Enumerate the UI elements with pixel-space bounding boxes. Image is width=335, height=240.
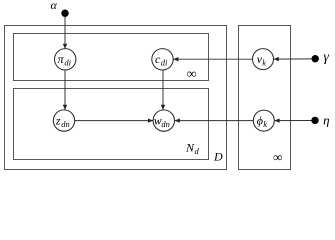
label infinity (top plate index): [187, 66, 197, 81]
svg-text:z: z: [55, 113, 61, 127]
wire v_k to c_di: [173, 57, 252, 61]
svg-text:N: N: [185, 141, 195, 155]
svg-text:ϕ: ϕ: [257, 114, 263, 128]
node gamma (observed hyperparameter dot): [312, 55, 319, 62]
node alpha (observed hyperparameter dot): [61, 10, 68, 17]
wire c_di to w_dn: [161, 70, 165, 110]
label infinity (right plate index): [273, 150, 282, 165]
node pi_di: [54, 49, 75, 70]
svg-text:D: D: [213, 150, 223, 164]
svg-text:di: di: [64, 58, 71, 68]
svg-text:k: k: [262, 58, 266, 68]
svg-text:dn: dn: [161, 119, 170, 129]
label gamma: [323, 50, 329, 65]
node c_di: [152, 49, 173, 70]
wire eta to phi_k: [274, 118, 311, 122]
wire gamma to v_k: [274, 57, 312, 61]
wire pi_di to z_dn: [63, 70, 67, 110]
svg-text:∞: ∞: [187, 66, 197, 81]
node w_dn: [153, 110, 174, 131]
plate D (outer document plate): [5, 26, 227, 170]
node phi_k: [253, 110, 274, 131]
node eta (observed hyperparameter dot): [311, 117, 318, 124]
svg-text:d: d: [195, 146, 200, 156]
svg-text:k: k: [263, 119, 267, 129]
wire z_dn to w_dn: [75, 118, 154, 122]
svg-text:∞: ∞: [273, 150, 282, 165]
node v_k: [253, 49, 274, 70]
svg-text:dn: dn: [61, 119, 69, 129]
wire alpha to pi_di: [63, 16, 67, 50]
svg-text:di: di: [161, 58, 168, 68]
svg-text:α: α: [50, 0, 57, 12]
svg-text:γ: γ: [323, 50, 329, 65]
label N_d (plate index): [185, 141, 200, 156]
node z_dn: [53, 110, 74, 131]
plate K-infinity (right plate with v_k, phi_k): [239, 26, 291, 170]
svg-text:η: η: [323, 113, 329, 128]
label eta: [323, 113, 329, 128]
plate N_d (bottom inner plate with z_dn, w_dn): [14, 89, 209, 160]
wire phi_k to w_dn: [175, 118, 254, 122]
label D (plate index): [213, 150, 223, 164]
label alpha: [50, 0, 57, 12]
plate infinity (top inner plate with pi_di, c_di): [14, 34, 209, 81]
